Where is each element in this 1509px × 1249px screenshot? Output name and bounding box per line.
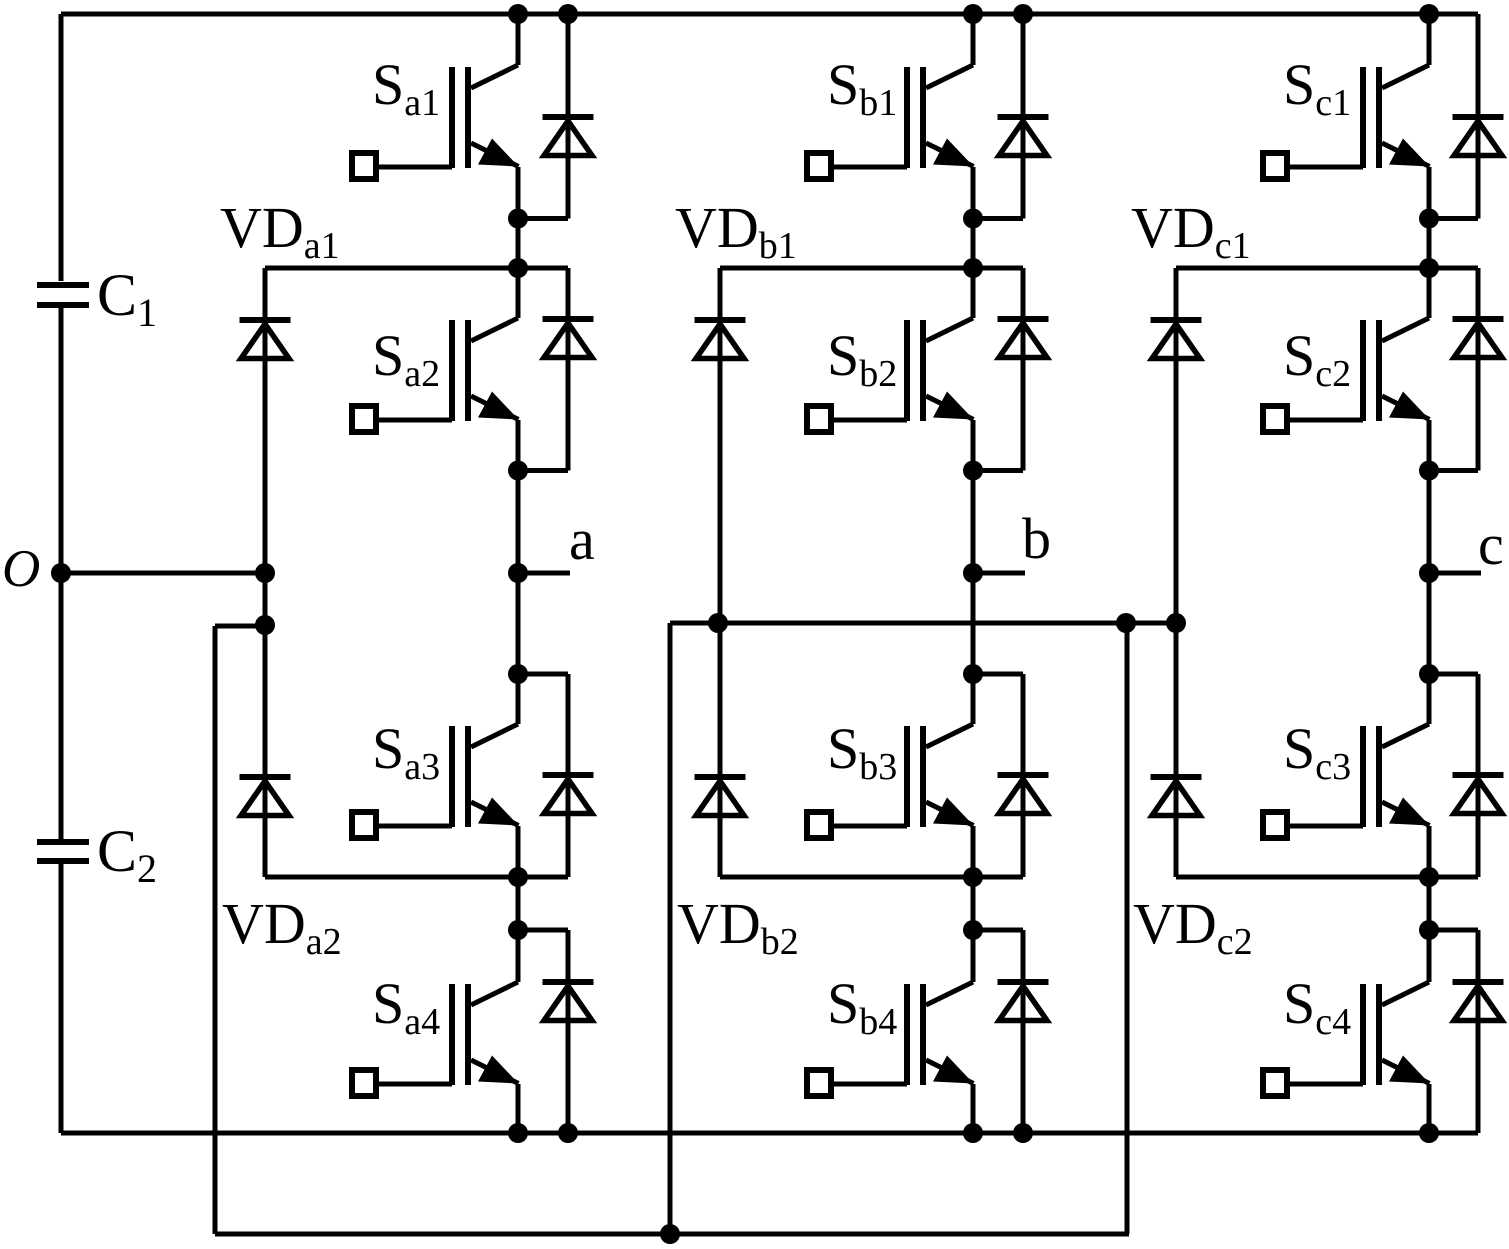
diode Da1 (antiparallel of Sa1) <box>543 14 594 219</box>
transistor Sc2 (IGBT) <box>1263 268 1430 471</box>
wire: clamp row VDb1 <box>720 266 1023 271</box>
svg-text:b: b <box>1022 506 1051 571</box>
wire: VDa2 row to Sa4 collector node <box>516 877 521 930</box>
diode Da2 (antiparallel of Sa2) <box>543 268 594 471</box>
node: VDc2 clamp junction <box>1419 867 1439 887</box>
node: top rail at Sb1 <box>963 4 983 24</box>
svg-text:Sb1: Sb1 <box>827 52 897 124</box>
svg-text:Sa1: Sa1 <box>372 52 440 124</box>
wire: left DC bus (top rail to C1) <box>59 14 64 281</box>
node: neutral at clamp b <box>708 613 728 633</box>
diode Dc1 (antiparallel of Sc1) <box>1453 14 1504 219</box>
node: top rail at Da1 <box>558 4 578 24</box>
svg-text:VDc2: VDc2 <box>1133 891 1253 963</box>
node Sb1 emitter junction <box>963 209 983 229</box>
wire: Sc3 collector to Dc3 <box>1429 672 1478 677</box>
node: bottom rail at Da4 <box>558 1123 578 1143</box>
svg-text:C2: C2 <box>97 818 157 891</box>
clamping diode VDb2 (lower) <box>695 777 746 816</box>
wire: Sc2 emitter to output c <box>1427 471 1432 574</box>
node Sc3 collector junction <box>1419 664 1439 684</box>
transistor Sc4 (IGBT) <box>1263 930 1430 1133</box>
wire: Sa4 collector to Da4 <box>518 928 568 933</box>
diode Da3 (antiparallel of Sa3) <box>543 674 594 877</box>
wire: VDb2 row to Sb4 collector node <box>971 877 976 930</box>
wire: neutral riser x=670 <box>668 623 673 1234</box>
diode Dc3 (antiparallel of Sc3) <box>1453 674 1504 877</box>
node: top rail at Db1 <box>1013 4 1033 24</box>
svg-text:VDb1: VDb1 <box>675 195 797 267</box>
node Sc1 emitter junction <box>1419 209 1439 229</box>
node: VDc1 clamp junction <box>1419 258 1439 278</box>
transistor Sa3 (IGBT) <box>352 674 519 877</box>
svg-text:c: c <box>1478 512 1504 577</box>
svg-text:Sc2: Sc2 <box>1283 323 1351 395</box>
node: VDb1 clamp junction <box>963 258 983 278</box>
wire: output c to Sc3 <box>1427 573 1432 674</box>
capacitor C2 <box>37 842 89 861</box>
svg-text:Sc3: Sc3 <box>1283 716 1351 788</box>
diode Dc2 (antiparallel of Sc2) <box>1453 268 1504 471</box>
wire: left neutral drop (x=215) <box>213 626 218 1234</box>
svg-text:O: O <box>2 540 40 598</box>
svg-text:Sb2: Sb2 <box>827 323 897 395</box>
clamping diode VDc1 (upper) <box>1151 268 1202 877</box>
wire: neutral riser x=1127 <box>1125 623 1130 1234</box>
svg-text:VDa2: VDa2 <box>222 891 342 963</box>
wire: bottom DC- rail <box>61 1131 1478 1136</box>
node: clamp a neutral tap <box>255 615 275 635</box>
wire: Sc2 emitter to Dc2 <box>1429 468 1478 473</box>
wire: Sb1 emitter to Db1 <box>973 216 1023 221</box>
node Sb4 collector junction <box>963 920 983 940</box>
node: bottom rail at Sc4 <box>1419 1123 1439 1143</box>
wire: output c stub <box>1429 571 1481 576</box>
node: output c <box>1419 563 1439 583</box>
wire: Sa1 emitter to Da1 <box>518 216 568 221</box>
node O dot <box>51 563 71 583</box>
transistor Sb2 (IGBT) <box>807 268 974 471</box>
capacitor C1 <box>37 285 89 305</box>
diode Db2 (antiparallel of Sb2) <box>998 268 1049 471</box>
node Sb3 collector junction <box>963 664 983 684</box>
svg-text:Sc1: Sc1 <box>1283 52 1351 124</box>
svg-text:a: a <box>569 507 595 572</box>
transistor Sa2 (IGBT) <box>352 268 519 471</box>
wire: Sa1 emitter node to clamp row <box>516 219 521 269</box>
node: output b <box>963 563 983 583</box>
wire: output a stub <box>518 571 570 576</box>
wire: Sa3 collector to Da3 <box>518 672 568 677</box>
node: bottom neutral junction <box>660 1224 680 1244</box>
clamping diode VDc2 (lower) <box>1151 777 1202 816</box>
wire: mid neutral bus <box>670 621 1176 626</box>
wire: top DC+ rail <box>61 12 1478 17</box>
wire: lower clamp row VDb2 <box>720 875 1023 880</box>
svg-text:VDa1: VDa1 <box>220 195 340 267</box>
wire: Sb2 emitter to output b <box>971 471 976 574</box>
wire: O to phase-a clamp midpoint <box>61 571 265 576</box>
node Sa1 emitter junction <box>508 209 528 229</box>
diode Db1 (antiparallel of Sb1) <box>998 14 1049 219</box>
node: bottom rail at Sb4 <box>963 1123 983 1143</box>
node: output a <box>508 563 528 583</box>
svg-text:Sa2: Sa2 <box>372 323 440 395</box>
transistor Sc1 (IGBT) <box>1263 14 1430 219</box>
wire: output b to Sb3 <box>971 573 976 674</box>
node: VDa1 clamp junction <box>508 258 528 278</box>
node Sc2 emitter junction <box>1419 461 1439 481</box>
svg-text:Sc4: Sc4 <box>1283 971 1351 1043</box>
clamping diode VDb1 (upper) <box>695 268 746 877</box>
node: top rail at Sc1 <box>1419 4 1439 24</box>
wire: Sc1 emitter node to clamp row <box>1427 219 1432 269</box>
wire: Sc4 collector to Dc4 <box>1429 928 1478 933</box>
svg-text:Sb4: Sb4 <box>827 971 897 1043</box>
svg-text:C1: C1 <box>97 262 157 335</box>
transistor Sb4 (IGBT) <box>807 930 974 1133</box>
clamping diode VDa2 (lower) <box>240 777 291 816</box>
wire: clamp row VDa1 <box>265 266 568 271</box>
wire: lower clamp row VDa2 <box>265 875 568 880</box>
wire: jog clamp-a to left bus <box>215 624 265 629</box>
wire: left DC bus (C2 to bottom rail) <box>59 864 64 1133</box>
node Sa2 emitter junction <box>508 461 528 481</box>
node: neutral at clamp c <box>1166 613 1186 633</box>
wire: output b stub <box>973 571 1025 576</box>
transistor Sb1 (IGBT) <box>807 14 974 219</box>
node: O-line at clamp a <box>255 563 275 583</box>
transistor Sc3 (IGBT) <box>1263 674 1430 877</box>
wire: Sc1 emitter to Dc1 <box>1429 216 1478 221</box>
svg-text:VDc1: VDc1 <box>1131 195 1251 267</box>
node: top rail at Sa1 <box>508 4 528 24</box>
wire: output a to Sa3 <box>516 573 521 674</box>
node: neutral riser junction <box>1116 613 1136 633</box>
node Sa3 collector junction <box>508 664 528 684</box>
node Sb2 emitter junction <box>963 461 983 481</box>
diode Db4 (antiparallel of Sb4) <box>998 930 1049 1133</box>
transistor Sa4 (IGBT) <box>352 930 519 1133</box>
transistor Sb3 (IGBT) <box>807 674 974 877</box>
wire: clamp row VDc1 <box>1176 266 1478 271</box>
transistor Sa1 (IGBT) <box>352 14 519 219</box>
wire: bottom neutral bus <box>215 1232 1129 1237</box>
wire: Sa2 emitter to output a <box>516 471 521 574</box>
wire: Sb2 emitter to Db2 <box>973 468 1023 473</box>
wire: Sb4 collector to Db4 <box>973 928 1023 933</box>
wire: Sa2 emitter to Da2 <box>518 468 568 473</box>
node: VDa2 clamp junction <box>508 867 528 887</box>
node: VDb2 clamp junction <box>963 867 983 887</box>
node Sc4 collector junction <box>1419 920 1439 940</box>
svg-text:Sa4: Sa4 <box>372 971 440 1043</box>
clamping diode VDa1 (upper) <box>240 268 291 877</box>
wire: lower clamp row VDc2 <box>1176 875 1478 880</box>
svg-text:VDb2: VDb2 <box>677 891 799 963</box>
diode Db3 (antiparallel of Sb3) <box>998 674 1049 877</box>
node: bottom rail at Sa4 <box>508 1123 528 1143</box>
svg-text:Sa3: Sa3 <box>372 716 440 788</box>
svg-text:Sb3: Sb3 <box>827 716 897 788</box>
wire: Sb1 emitter node to clamp row <box>971 219 976 269</box>
wire: left DC bus (C1 to C2) <box>59 308 64 839</box>
diode Da4 (antiparallel of Sa4) <box>543 930 594 1133</box>
wire: VDc2 row to Sc4 collector node <box>1427 877 1432 930</box>
diode Dc4 (antiparallel of Sc4) <box>1453 930 1504 1133</box>
node Sa4 collector junction <box>508 920 528 940</box>
wire: Sb3 collector to Db3 <box>973 672 1023 677</box>
node: bottom rail at Db4 <box>1013 1123 1033 1143</box>
